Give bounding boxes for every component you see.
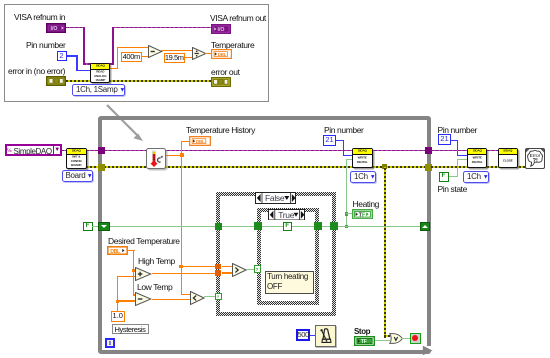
constant SimpleDAQ (VISA resource) — [5, 144, 62, 156]
add function — [135, 267, 152, 281]
wire VISA purple across loop — [104, 150, 425, 152]
junction temperature wire — [180, 153, 184, 157]
wire temperature into case — [181, 266, 216, 267]
wire or to stop terminal — [402, 338, 411, 339]
tunnel outer-right green — [330, 222, 338, 230]
tunnel selector inner case — [254, 265, 262, 273]
wire: 500 to wait VI — [310, 335, 316, 337]
wire: error down to Or — [384, 167, 386, 338]
wire: F to shift register — [92, 226, 108, 227]
wire less-than to selector — [204, 296, 216, 297]
wire pin state to WRITE2 — [449, 176, 458, 177]
svg-text:TF: TF — [360, 339, 366, 345]
constant 400m — [121, 52, 143, 63]
wire: 400m to subtract — [142, 56, 148, 57]
tunnel error right — [425, 164, 432, 171]
wire stop to or — [375, 340, 390, 341]
wire greater-than to inner selector — [246, 269, 255, 270]
iteration terminal i — [105, 338, 115, 348]
wire: divide to Temperature — [205, 53, 211, 54]
case structure outer (False) — [216, 192, 336, 316]
label Low Temp — [137, 282, 172, 292]
constant 21 (loop) — [323, 135, 336, 146]
label Heating — [353, 199, 380, 209]
terminal error out — [211, 77, 231, 87]
wire: temperature branch vertical — [181, 141, 182, 267]
svg-text:True: True — [278, 209, 295, 219]
label Pin number (right) — [438, 125, 477, 135]
label Stop — [354, 327, 370, 336]
terminal Stop TF — [354, 336, 375, 346]
label High Temp — [138, 256, 175, 266]
label Desired Temperature — [108, 236, 180, 246]
svg-text:?!: ?! — [533, 158, 538, 164]
green wire through cases — [220, 226, 420, 227]
label Temperature — [211, 40, 254, 50]
annotation arrow from inset to thermometer VI — [100, 100, 152, 148]
wire WRITE2 to CLOSE — [487, 150, 498, 152]
wire: to add and subtract inputs — [133, 270, 137, 271]
VI: wait (ms) metronome icon — [315, 325, 337, 347]
VI: SIDAQ READ ANALOG 1SAMP — [90, 63, 111, 84]
label error in (no error) — [8, 66, 65, 76]
shift register left — [98, 222, 110, 232]
VI: SIDAQ WRITE DIGITAL (in loop) — [352, 148, 373, 168]
label Temperature History — [186, 125, 255, 135]
wire error across loop — [104, 166, 425, 168]
orange tunnels on outer case — [215, 264, 221, 270]
svg-text:I/O: I/O — [217, 27, 224, 33]
wire thermometer output — [165, 155, 182, 156]
svg-text:False: False — [265, 193, 285, 203]
greater-than function — [232, 263, 247, 277]
wire subtract to divide — [161, 50, 192, 51]
constant F (inner case) — [283, 222, 293, 231]
wire temperature to less-than — [181, 266, 182, 295]
constant 500 — [296, 329, 311, 341]
wire: branch to Temperature History — [181, 141, 190, 142]
junction heating wire lower — [345, 225, 348, 228]
label Pin number (inset) — [26, 40, 65, 50]
junction temperature at case — [179, 265, 183, 269]
tunnel purple left — [98, 147, 105, 154]
loop condition terminal (stop sign) — [410, 333, 421, 344]
constant 19.5m — [164, 53, 186, 64]
tunnel outer-left green — [215, 223, 222, 230]
less-than function — [190, 291, 205, 305]
wire 21 to WRITE DIGITAL 2 — [449, 140, 458, 142]
VI: simple error handler — [525, 148, 545, 169]
svg-text:DBL: DBL — [196, 139, 205, 144]
label Pin state — [438, 184, 467, 194]
green boolean shift wire across loop — [108, 226, 421, 227]
VI: SIDAQ CLOSE — [498, 148, 518, 168]
label error out — [211, 67, 240, 77]
dropdown 1Ch, 1Samp — [72, 84, 125, 96]
wire: analog sample to subtract — [109, 68, 118, 69]
wire: INIT VI to loop tunnel (error) — [86, 166, 98, 168]
dropdown 1Ch (loop) — [350, 171, 376, 183]
label VISA refnum out — [210, 13, 266, 23]
constant 1.0 — [111, 311, 125, 322]
wire hysteresis — [117, 276, 118, 311]
constant F (init shift register) — [83, 222, 93, 232]
wire: pin number 2 to READ VI — [66, 55, 77, 57]
divide function — [192, 47, 207, 60]
junction desired temperature — [132, 269, 136, 273]
terminal Desired Temperature DBL control — [107, 246, 128, 255]
terminal VISA refnum in — [46, 23, 66, 33]
svg-text:DBL: DBL — [217, 51, 226, 56]
wire heating boolean up to WRITE DIGITAL — [346, 159, 347, 227]
terminal Heating TF — [352, 209, 373, 220]
svg-text:DBL: DBL — [110, 249, 120, 255]
dropdown 1Ch (right) — [463, 171, 489, 183]
while loop border — [98, 116, 431, 354]
wire: SimpleDAQ to INIT VI — [61, 150, 67, 152]
label Pin number (loop) — [324, 125, 363, 135]
tunnel selector outer case — [215, 293, 222, 300]
wire Low Temp to less-than — [152, 299, 190, 300]
terminal Temperature DBL — [211, 49, 232, 59]
or function — [389, 333, 404, 344]
dropdown Board — [62, 170, 93, 182]
svg-text:I/O: I/O — [51, 26, 58, 32]
wire: error out of READ VI — [109, 80, 211, 82]
wire: VISA refnum in to READ VI — [66, 27, 85, 29]
junction error wire to stop logic — [382, 164, 387, 169]
terminal error in — [46, 76, 66, 86]
wires tunnels to greater-than — [222, 266, 232, 267]
shift register right — [420, 222, 430, 231]
terminal VISA refnum out — [211, 24, 231, 34]
wire: VISA out of READ VI — [109, 63, 114, 65]
wire: error in to READ VI — [66, 80, 91, 82]
wire: 19.5m to divide — [184, 57, 192, 58]
case structure inner (True) — [257, 208, 319, 305]
wire High Temp to case — [152, 273, 216, 274]
subtract function (low) — [135, 292, 152, 306]
junction hysteresis — [116, 300, 120, 304]
wire VISA loop to WRITE2 — [431, 150, 467, 152]
inset sub-diagram frame — [4, 4, 269, 102]
tunnel inner-right green — [314, 222, 322, 230]
wire 21 to WRITE DIGITAL — [336, 140, 344, 142]
tunnel error left — [98, 164, 105, 171]
case selector False — [255, 192, 296, 204]
tunnel inner-left green — [254, 222, 262, 230]
label Hysteresis — [112, 324, 149, 335]
while loop bottom-right arrowhead — [426, 346, 433, 350]
junction heating wire upper — [345, 212, 348, 215]
wire: hysteresis to add and subtract — [117, 276, 135, 277]
label VISA refnum in — [14, 12, 65, 22]
terminal Temperature History DBL — [189, 136, 211, 146]
wire: INIT VI to loop tunnel (VISA) — [86, 150, 98, 152]
subtract function — [148, 45, 163, 58]
wire: branch to Heating indicator — [346, 213, 352, 214]
case selector True — [268, 209, 305, 221]
wire desired temperature — [128, 250, 135, 251]
VI: SIDAQ INIT & CONFIG BOARD — [66, 148, 87, 169]
free label Turn heating OFF — [265, 271, 314, 294]
tunnel purple right — [425, 147, 432, 154]
VI: SIDAQ WRITE DIGITAL (right) — [467, 148, 488, 168]
wire error loop to handler — [431, 166, 526, 168]
constant F pin state — [439, 172, 449, 182]
constant 21 (right) — [438, 134, 451, 145]
VI: thermometer (read temperature) — [146, 148, 166, 169]
constant 2 — [57, 51, 67, 62]
